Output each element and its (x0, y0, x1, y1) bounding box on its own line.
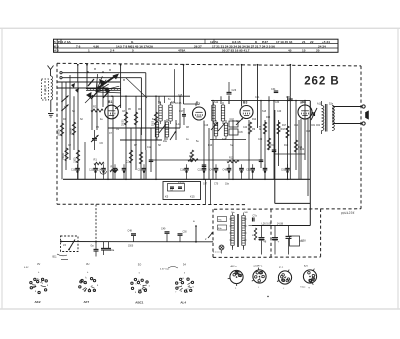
svg-text:C55: C55 (281, 169, 286, 171)
svg-text:50 27 83 16 95 41.7: 50 27 83 16 95 41.7 (222, 49, 250, 53)
svg-text:R2: R2 (93, 105, 97, 109)
svg-text:262 B: 262 B (304, 75, 339, 87)
svg-text:C43: C43 (230, 119, 235, 121)
svg-text:C6: C6 (100, 141, 104, 145)
svg-text:5: 5 (54, 40, 56, 44)
svg-text:C12: C12 (147, 147, 152, 149)
svg-text:K15: K15 (190, 195, 195, 199)
svg-text:+5 34: +5 34 (322, 40, 330, 44)
svg-text:9.6 15: 9.6 15 (232, 40, 241, 44)
svg-text:12.7A: 12.7A (210, 40, 219, 44)
svg-text:478A: 478A (178, 49, 186, 53)
svg-text:22: 22 (310, 40, 314, 44)
svg-text:R10: R10 (208, 145, 213, 147)
svg-text:S12: S12 (214, 101, 219, 104)
svg-text:C33: C33 (275, 102, 280, 104)
svg-text:C70: C70 (214, 184, 219, 186)
svg-text:g1 AF7 a: g1 AF7 a (254, 265, 264, 268)
svg-text:K 5: K 5 (54, 44, 59, 48)
svg-text:17 21 21 24 25 24 26 34 36 37: 17 21 21 24 25 24 26 34 36 37 21 7 34 2 … (212, 44, 275, 48)
svg-text:4/5 K6: 4/5 K6 (178, 182, 185, 184)
svg-text:C22: C22 (198, 169, 203, 171)
svg-text:C49: C49 (258, 139, 263, 141)
svg-text:R17: R17 (282, 125, 287, 127)
svg-text:C13: C13 (89, 169, 94, 171)
svg-text:C17: C17 (179, 110, 184, 113)
svg-text:P41 2 3A: P41 2 3A (58, 40, 72, 44)
svg-text:5: 5 (132, 49, 134, 53)
svg-text:C31: C31 (255, 96, 260, 99)
svg-text:C14: C14 (97, 169, 102, 171)
svg-text:B2: B2 (196, 102, 200, 106)
svg-text:C7a: C7a (253, 216, 258, 218)
svg-text:C19: C19 (204, 125, 209, 127)
svg-text:14.5 7 8 M01 45 16 17A2A: 14.5 7 8 M01 45 16 17A2A (116, 44, 154, 48)
svg-text:21: 21 (302, 40, 306, 44)
svg-text:4.90: 4.90 (93, 44, 99, 48)
svg-text:6.3V: 6.3V (24, 267, 29, 269)
svg-text:15000: 15000 (62, 153, 65, 160)
svg-text:8011234: 8011234 (341, 211, 355, 215)
svg-text:S18: S18 (262, 111, 267, 113)
svg-text:C61 C62: C61 C62 (311, 125, 321, 127)
svg-text:C45: C45 (239, 132, 244, 134)
svg-text:AK2: AK2 (35, 300, 41, 304)
svg-text:R18: R18 (281, 128, 286, 131)
svg-text:C42: C42 (236, 121, 241, 123)
svg-text:B3: B3 (243, 100, 247, 104)
svg-text:C47: C47 (210, 169, 215, 171)
svg-text:C18: C18 (180, 169, 185, 171)
svg-text:+: + (278, 240, 280, 244)
svg-text:C16: C16 (138, 169, 143, 171)
svg-text:1500: 1500 (128, 246, 134, 248)
svg-text:S13: S13 (222, 139, 227, 141)
svg-text:R16: R16 (260, 125, 262, 130)
svg-text:ABC1: ABC1 (135, 301, 143, 305)
svg-text:C40: C40 (277, 111, 282, 113)
svg-text:1500: 1500 (74, 157, 77, 163)
svg-text:30000: 30000 (123, 119, 125, 126)
svg-text:C54: C54 (294, 125, 299, 127)
svg-text:K5: K5 (165, 195, 169, 199)
svg-text:C44: C44 (243, 127, 248, 129)
svg-text:5000: 5000 (153, 120, 155, 126)
svg-text:C48: C48 (128, 230, 133, 233)
svg-text:3U: 3U (86, 262, 89, 266)
svg-text:R19: R19 (284, 145, 289, 147)
svg-text:2 4: 2 4 (110, 49, 115, 53)
svg-text:15: 15 (302, 49, 306, 53)
svg-text:24 34: 24 34 (318, 44, 326, 48)
svg-text:B11: B11 (53, 256, 58, 259)
svg-text:1: 1 (88, 49, 90, 53)
svg-text:C15: C15 (177, 102, 182, 105)
svg-text:4.5V max: 4.5V max (160, 269, 170, 271)
svg-text:C48: C48 (223, 169, 228, 171)
svg-text:C26: C26 (232, 89, 237, 92)
svg-text:R14: R14 (252, 119, 257, 121)
svg-text:17 19 45 34: 17 19 45 34 (276, 40, 293, 44)
svg-text:C50: C50 (183, 232, 188, 234)
svg-text:AL4: AL4 (180, 301, 186, 305)
svg-text:L5: L5 (63, 243, 67, 247)
svg-text:45: 45 (288, 49, 292, 53)
svg-text:L26 5.08: L26 5.08 (262, 222, 272, 225)
svg-text:52a: 52a (329, 103, 334, 106)
svg-text:R1: R1 (94, 158, 98, 162)
svg-text:50000: 50000 (70, 128, 73, 135)
svg-text:R13: R13 (229, 157, 234, 160)
svg-text:14.08: 14.08 (277, 222, 284, 225)
svg-text:A 3: A 3 (54, 49, 59, 53)
svg-text:C51: C51 (270, 145, 275, 147)
svg-text:f max: f max (300, 287, 306, 289)
svg-text:R11: R11 (189, 155, 194, 158)
svg-text:AK2 a: AK2 a (231, 265, 238, 268)
svg-text:B1: B1 (108, 100, 112, 104)
svg-text:P.37: P.37 (262, 40, 268, 44)
svg-text:C10: C10 (71, 169, 76, 171)
svg-text:3V: 3V (37, 262, 40, 266)
svg-text:3O: 3O (138, 263, 141, 267)
svg-text:26 27: 26 27 (194, 44, 202, 48)
svg-text:L14: L14 (177, 123, 182, 126)
svg-text:AF7: AF7 (84, 300, 90, 304)
svg-text:C52: C52 (246, 169, 251, 171)
svg-text:30000: 30000 (58, 129, 61, 136)
svg-text:7 6: 7 6 (76, 44, 81, 48)
svg-text:20: 20 (316, 49, 320, 53)
svg-text:R15: R15 (266, 117, 271, 119)
svg-text:C49: C49 (161, 228, 166, 231)
